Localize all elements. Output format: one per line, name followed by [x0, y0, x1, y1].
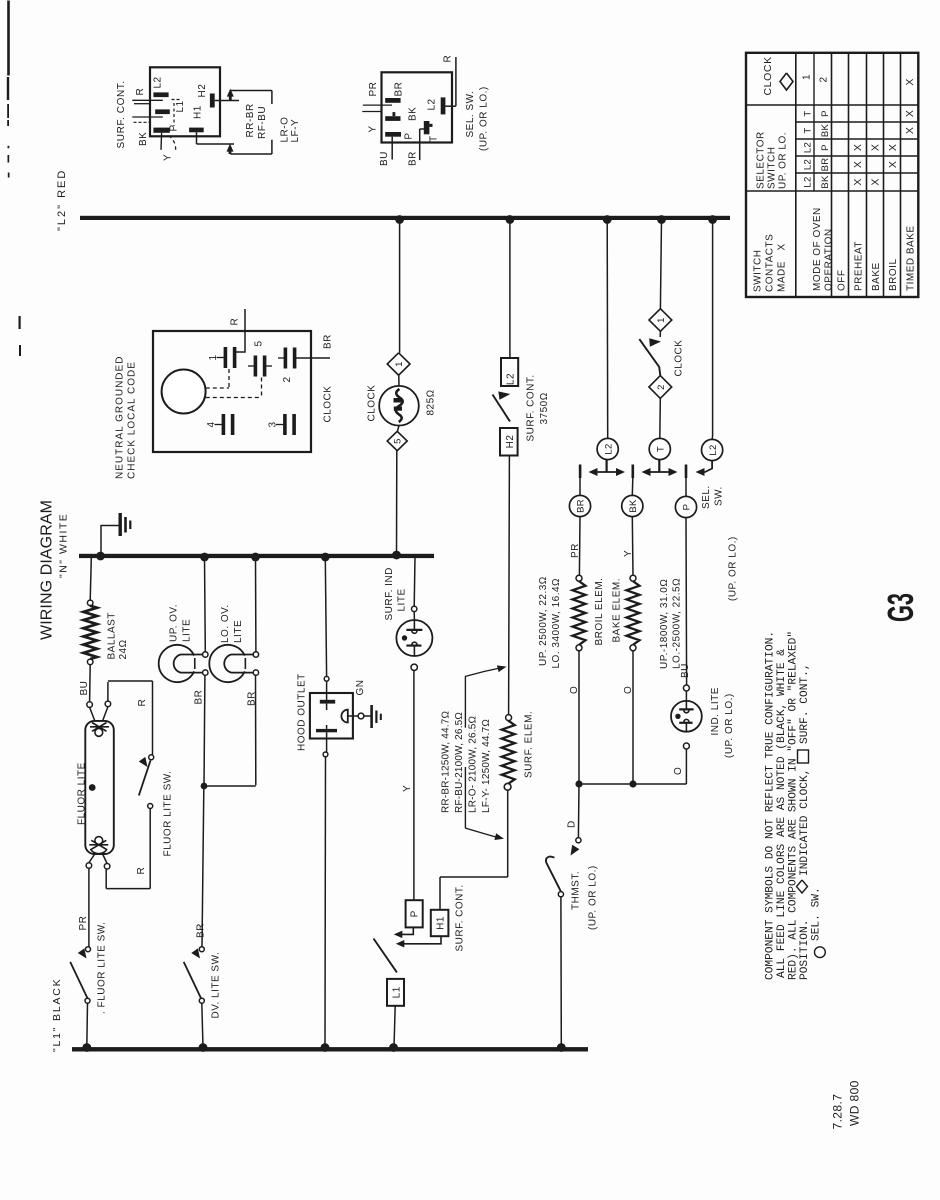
svg-text:SWITCH: SWITCH — [753, 250, 764, 292]
svg-text:BAKE ELEM.: BAKE ELEM. — [612, 578, 623, 642]
svg-text:UP. 2500W, 22.3Ω: UP. 2500W, 22.3Ω — [538, 576, 549, 666]
svg-text:2: 2 — [282, 376, 293, 382]
svg-text:H2: H2 — [505, 435, 516, 449]
svg-text:SEL. SW.: SEL. SW. — [465, 91, 476, 138]
svg-text:CONTACTS: CONTACTS — [765, 234, 776, 292]
svg-text:P: P — [404, 132, 415, 139]
svg-text:FLUOR LITE: FLUOR LITE — [77, 762, 88, 825]
svg-text:RR-BR: RR-BR — [245, 103, 256, 137]
svg-text:WD 800: WD 800 — [848, 1080, 862, 1126]
svg-text:X: X — [852, 144, 864, 151]
svg-text:L2: L2 — [427, 98, 438, 110]
svg-text:PR: PR — [368, 82, 379, 97]
svg-text:LF-Y- 1250W, 44.7Ω: LF-Y- 1250W, 44.7Ω — [481, 719, 492, 813]
svg-text:"L2" RED: "L2" RED — [56, 169, 68, 231]
svg-text:X: X — [904, 110, 916, 117]
svg-text:X: X — [870, 144, 882, 151]
svg-text:R: R — [137, 699, 148, 707]
svg-text:T: T — [429, 135, 440, 142]
svg-text:IND. LITE: IND. LITE — [710, 687, 721, 735]
svg-text:L2: L2 — [803, 159, 814, 170]
svg-text:BK: BK — [138, 132, 149, 146]
svg-text:X: X — [904, 127, 916, 134]
svg-text:L2: L2 — [153, 76, 164, 88]
svg-text:P: P — [820, 144, 831, 151]
svg-text:PR: PR — [570, 543, 581, 558]
svg-text:825Ω: 825Ω — [426, 389, 437, 415]
svg-text:SURF. CONT.: SURF. CONT. — [526, 374, 537, 441]
svg-text:BK: BK — [408, 107, 419, 121]
svg-text:G3: G3 — [880, 593, 921, 622]
svg-text:CLOCK: CLOCK — [762, 56, 774, 95]
svg-text:SELECTOR: SELECTOR — [756, 131, 767, 189]
svg-text:L1: L1 — [175, 100, 186, 112]
svg-text:D: D — [567, 820, 578, 828]
svg-text:LR-O- 2100W, 26.5Ω: LR-O- 2100W, 26.5Ω — [468, 715, 479, 813]
svg-text:LF-Y: LF-Y — [290, 119, 301, 143]
svg-text:X: X — [904, 78, 916, 85]
svg-text:X: X — [852, 178, 864, 185]
svg-text:1: 1 — [802, 74, 813, 80]
svg-text:LO.-2500W, 22.5Ω: LO.-2500W, 22.5Ω — [672, 578, 683, 669]
svg-text:BROIL ELEM.: BROIL ELEM. — [594, 578, 605, 646]
svg-text:CLOCK: CLOCK — [674, 340, 685, 377]
svg-text:BK: BK — [628, 499, 639, 513]
svg-text:T: T — [803, 127, 814, 133]
svg-text:L2: L2 — [506, 373, 517, 385]
svg-text:P: P — [682, 504, 693, 511]
svg-text:R: R — [230, 318, 241, 326]
svg-text:MADE: MADE — [777, 261, 788, 292]
svg-text:SURF. CONT.: SURF. CONT. — [116, 80, 127, 148]
svg-text:TIMED BAKE: TIMED BAKE — [906, 225, 917, 291]
svg-text:3750Ω: 3750Ω — [539, 392, 550, 424]
svg-text:BALLAST: BALLAST — [107, 612, 118, 659]
svg-text:RED). ALL COMPONENTS ARE SHOWN: RED). ALL COMPONENTS ARE SHOWN IN "OFF" … — [788, 631, 800, 980]
svg-text:BU: BU — [79, 681, 90, 696]
svg-text:RF-BU-2100W, 26.5Ω: RF-BU-2100W, 26.5Ω — [454, 712, 465, 813]
svg-text:H1: H1 — [193, 105, 204, 119]
svg-text:R: R — [135, 88, 146, 96]
svg-text:L2: L2 — [803, 142, 814, 153]
svg-text:LO. OV.: LO. OV. — [220, 604, 231, 643]
svg-text:WIRING DIAGRAM: WIRING DIAGRAM — [39, 500, 56, 640]
svg-text:(UP. OR LO.): (UP. OR LO.) — [724, 693, 735, 758]
svg-text:BR: BR — [820, 158, 831, 172]
svg-text:T: T — [803, 110, 814, 116]
svg-text:POSITION.: POSITION. — [799, 920, 811, 980]
svg-text:Y: Y — [623, 550, 634, 557]
svg-text:LITE: LITE — [182, 619, 193, 642]
svg-text:L2: L2 — [708, 444, 719, 455]
svg-text:O: O — [623, 686, 634, 694]
svg-text:SEL. SW.: SEL. SW. — [811, 887, 823, 941]
svg-text:BR: BR — [247, 691, 258, 706]
svg-text:SURF. ELEM.: SURF. ELEM. — [524, 711, 535, 778]
svg-text:UP.-1800W, 31.0Ω: UP.-1800W, 31.0Ω — [659, 579, 670, 669]
svg-text:Y: Y — [402, 785, 413, 792]
svg-text:7.28.7: 7.28.7 — [831, 1094, 845, 1130]
svg-text:. FLUOR LITE SW.: . FLUOR LITE SW. — [97, 922, 108, 1014]
svg-text:SEL.: SEL. — [701, 485, 712, 509]
svg-text:5: 5 — [393, 438, 404, 444]
svg-text:Y: Y — [163, 154, 174, 161]
svg-text:OFF: OFF — [837, 270, 848, 292]
svg-text:SW.: SW. — [714, 486, 725, 506]
svg-text:2: 2 — [656, 384, 667, 390]
svg-text:SWITCH: SWITCH — [767, 147, 778, 189]
svg-text:CLOCK: CLOCK — [367, 385, 378, 422]
svg-text:RR-BR-1250W, 44.7Ω: RR-BR-1250W, 44.7Ω — [441, 710, 452, 813]
svg-text:RF-BU: RF-BU — [257, 106, 268, 139]
svg-text:5: 5 — [254, 340, 265, 346]
svg-text:LO. 3400W, 16.4Ω: LO. 3400W, 16.4Ω — [551, 578, 562, 669]
svg-text:BR: BR — [576, 499, 587, 513]
svg-text:BR: BR — [323, 334, 334, 349]
svg-text:BU: BU — [379, 151, 390, 166]
svg-text:1: 1 — [394, 361, 405, 367]
svg-text:CHECK LOCAL CODE: CHECK LOCAL CODE — [127, 361, 138, 479]
svg-text:SURF. CONT.: SURF. CONT. — [455, 884, 466, 951]
svg-text:L1: L1 — [391, 986, 402, 998]
svg-text:H1: H1 — [436, 916, 447, 930]
svg-text:LITE: LITE — [233, 620, 244, 643]
svg-text:THMST.: THMST. — [571, 871, 582, 910]
svg-text:GN: GN — [355, 680, 366, 696]
svg-text:NEUTRAL GROUNDED: NEUTRAL GROUNDED — [115, 356, 126, 479]
svg-text:(UP. OR LO.): (UP. OR LO.) — [479, 86, 490, 151]
svg-text:HOOD OUTLET: HOOD OUTLET — [297, 673, 308, 751]
svg-text:O: O — [673, 767, 684, 775]
svg-text:L2: L2 — [604, 443, 615, 454]
svg-text:SURF. CONT.,: SURF. CONT., — [799, 663, 811, 744]
svg-text:"L1" BLACK: "L1" BLACK — [51, 978, 63, 1052]
svg-text:UP. OV.: UP. OV. — [169, 604, 180, 642]
svg-text:UP. OR LO.: UP. OR LO. — [778, 132, 789, 189]
svg-text:"N" WHITE: "N" WHITE — [58, 513, 70, 578]
svg-text:BAKE: BAKE — [871, 262, 882, 291]
svg-text:ALL FEED LINE COLORS ARE AS NO: ALL FEED LINE COLORS ARE AS NOTED (BLACK… — [776, 649, 788, 978]
svg-text:LITE: LITE — [397, 588, 408, 611]
svg-text:2: 2 — [819, 76, 830, 82]
svg-text:MODE OF OVEN: MODE OF OVEN — [812, 207, 823, 291]
svg-text:X: X — [777, 243, 788, 250]
svg-text:P: P — [410, 910, 421, 917]
svg-text:O: O — [569, 686, 580, 694]
svg-text:(UP. OR LO.): (UP. OR LO.) — [588, 865, 599, 930]
svg-text:H2: H2 — [197, 84, 208, 98]
svg-text:R: R — [136, 867, 147, 875]
svg-text:CLOCK: CLOCK — [323, 386, 334, 423]
svg-text:LR-O: LR-O — [280, 117, 291, 143]
svg-text:BK: BK — [820, 124, 831, 138]
svg-text:COMPONENT SYMBOLS DO NOT REFLE: COMPONENT SYMBOLS DO NOT REFLECT TRUE CO… — [765, 631, 777, 980]
svg-text:1: 1 — [656, 317, 667, 323]
svg-text:P: P — [169, 124, 180, 131]
svg-text:BR: BR — [408, 151, 419, 166]
svg-text:L2: L2 — [803, 176, 814, 187]
svg-text:BR: BR — [394, 82, 405, 97]
svg-text:FLUOR LITE SW.: FLUOR LITE SW. — [163, 771, 174, 857]
svg-text:X: X — [870, 178, 882, 185]
svg-text:BR: BR — [196, 923, 207, 938]
svg-text:R: R — [443, 55, 454, 63]
svg-text:BR: BR — [194, 690, 205, 705]
svg-text:BROIL: BROIL — [888, 258, 899, 291]
svg-text:PREHEAT: PREHEAT — [854, 241, 865, 291]
svg-text:X: X — [887, 144, 899, 151]
svg-text:INDICATED CLOCK,: INDICATED CLOCK, — [799, 769, 811, 876]
svg-text:Y: Y — [368, 125, 379, 132]
svg-text:P: P — [820, 110, 831, 117]
svg-text:OPERATION: OPERATION — [824, 228, 835, 291]
svg-text:SURF. IND: SURF. IND — [384, 567, 395, 620]
svg-text:X: X — [887, 161, 899, 168]
svg-text:24Ω: 24Ω — [118, 639, 129, 659]
svg-text:BK: BK — [820, 175, 831, 189]
svg-text:(UP. OR LO.): (UP. OR LO.) — [728, 536, 739, 601]
svg-text:X: X — [852, 161, 864, 168]
svg-text:PR: PR — [78, 916, 89, 931]
svg-text:T: T — [656, 446, 667, 452]
svg-text:DV. LITE SW.: DV. LITE SW. — [211, 952, 222, 1019]
